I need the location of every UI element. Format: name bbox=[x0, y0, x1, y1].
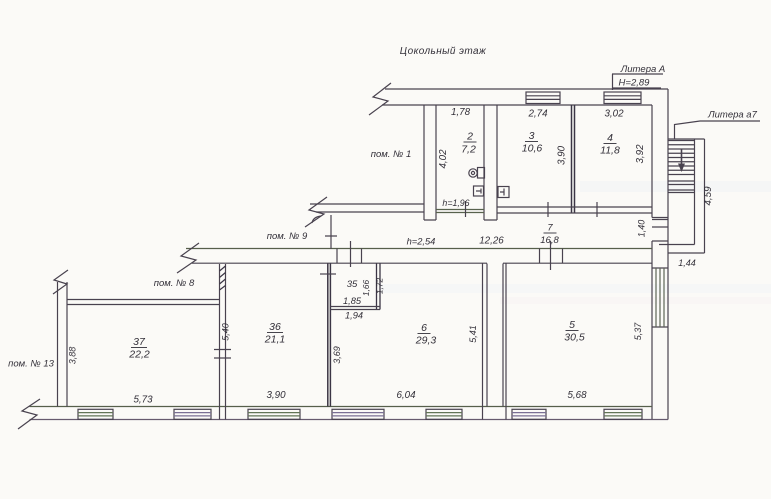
wall: rooms 3/4 bottom double bbox=[497, 207, 652, 213]
window bottom W7 bbox=[604, 409, 642, 419]
svg-text:3: 3 bbox=[529, 130, 535, 142]
wall: lower block bottom band top line bbox=[30, 406, 653, 408]
svg-text:h=1,96: h=1,96 bbox=[442, 198, 469, 208]
wall: пом1 bottom double bbox=[310, 204, 424, 212]
svg-text:16,8: 16,8 bbox=[540, 235, 559, 246]
sink room 2 bbox=[474, 186, 484, 196]
underline room 7 number bbox=[544, 232, 557, 234]
svg-text:1,66: 1,66 bbox=[361, 280, 371, 297]
break symbol top-left bbox=[369, 83, 391, 115]
svg-text:6: 6 bbox=[421, 322, 427, 334]
svg-text:3,90: 3,90 bbox=[557, 145, 568, 165]
stair door lines in right wall bbox=[652, 218, 668, 242]
svg-text:1,94: 1,94 bbox=[345, 311, 363, 321]
wall: room 37 top double bbox=[67, 300, 220, 305]
underline room 5 number bbox=[566, 330, 579, 332]
dimension line пом9 with tick and hook bbox=[312, 215, 337, 249]
window top wall room 4 bbox=[604, 92, 641, 104]
svg-text:3,90: 3,90 bbox=[266, 390, 286, 401]
svg-text:4,59: 4,59 bbox=[703, 186, 714, 206]
window top wall room 3 bbox=[526, 92, 560, 104]
wall: upper block top inner bbox=[382, 104, 652, 106]
door ticks wall 37/36 bbox=[214, 350, 231, 359]
Литера А underline bbox=[612, 73, 663, 75]
svg-text:5,37: 5,37 bbox=[633, 322, 643, 341]
svg-text:7: 7 bbox=[547, 223, 553, 234]
svg-text:пом. № 13: пом. № 13 bbox=[8, 359, 55, 370]
underline room 3 number bbox=[525, 141, 538, 143]
stair top line bbox=[668, 138, 705, 140]
svg-text:3,69: 3,69 bbox=[332, 346, 342, 364]
svg-text:3,92: 3,92 bbox=[635, 144, 646, 164]
door tick room 2 bottom bbox=[465, 201, 467, 217]
door tick room 3 bottom bbox=[547, 202, 549, 217]
svg-text:1,44: 1,44 bbox=[678, 258, 696, 268]
svg-text:30,5: 30,5 bbox=[564, 332, 585, 344]
stair landing lines bbox=[668, 181, 695, 193]
wall: corridor band bottom line bbox=[192, 262, 652, 264]
scan tint streak mid pink bbox=[500, 297, 771, 304]
wall: upper block top outer bbox=[385, 88, 668, 90]
wall divider rooms 36/6 bbox=[328, 264, 331, 407]
svg-text:Литера А: Литера А bbox=[620, 64, 666, 75]
wall divider rooms 3/4 bbox=[572, 105, 575, 213]
svg-text:1,85: 1,85 bbox=[343, 296, 362, 306]
svg-text:5,40: 5,40 bbox=[221, 323, 231, 341]
svg-text:29,3: 29,3 bbox=[415, 335, 437, 347]
svg-text:5,68: 5,68 bbox=[567, 390, 587, 401]
svg-text:22,2: 22,2 bbox=[128, 349, 150, 361]
window bottom W4 bbox=[332, 409, 384, 419]
wall: room 2 bottom double bbox=[436, 210, 484, 213]
wall: room 37 left double bbox=[58, 282, 68, 407]
stair arrow bbox=[681, 149, 683, 166]
svg-text:11,8: 11,8 bbox=[600, 145, 620, 157]
window bottom W5 bbox=[426, 409, 462, 419]
tick on divider 36/6 bbox=[320, 273, 336, 275]
sink room 3 bbox=[498, 187, 509, 198]
window right wall hatch bbox=[656, 268, 664, 327]
svg-text:Литера а7: Литера а7 bbox=[707, 110, 757, 121]
break symbol room 37 wall top bbox=[53, 270, 68, 294]
window bottom W3 bbox=[248, 409, 300, 419]
svg-text:3,02: 3,02 bbox=[604, 109, 624, 120]
underline room 36 number bbox=[267, 332, 283, 334]
wall: room 35 bottom double bbox=[330, 307, 380, 310]
svg-text:10,6: 10,6 bbox=[522, 143, 543, 155]
svg-text:21,1: 21,1 bbox=[264, 334, 285, 346]
door tick room 4 bottom bbox=[596, 202, 598, 217]
svg-text:Цокольный этаж: Цокольный этаж bbox=[400, 46, 487, 57]
stair rungs bbox=[668, 141, 695, 175]
window right wall caps bbox=[652, 268, 668, 327]
svg-text:5,73: 5,73 bbox=[133, 395, 153, 406]
svg-text:7,2: 7,2 bbox=[461, 144, 476, 156]
svg-text:2,74: 2,74 bbox=[527, 109, 548, 120]
wall: room 35 right double bbox=[377, 264, 381, 310]
window bottom W1 bbox=[78, 409, 113, 419]
svg-text:5,41: 5,41 bbox=[468, 325, 478, 343]
hatch pier on wall 37/36 bbox=[220, 266, 226, 290]
wall: building right inner x=652 bbox=[651, 105, 653, 420]
door jambs opening above room 36 bbox=[337, 241, 362, 267]
svg-text:3,88: 3,88 bbox=[68, 347, 78, 365]
underline room 4 number bbox=[604, 143, 617, 145]
svg-text:пом. № 9: пом. № 9 bbox=[267, 231, 308, 242]
svg-text:5: 5 bbox=[569, 319, 575, 331]
toilet room 2 bbox=[469, 168, 485, 179]
wall between rooms 6/5 bbox=[483, 264, 507, 420]
Литера а7 underline and leader bbox=[675, 121, 761, 139]
svg-text:12,26: 12,26 bbox=[479, 236, 504, 247]
underline room 37 number bbox=[131, 347, 147, 349]
wall column between room 2 and room 3 bbox=[484, 105, 497, 220]
svg-text:пом. № 8: пом. № 8 bbox=[154, 278, 195, 289]
svg-text:1,40: 1,40 bbox=[637, 220, 647, 238]
stair arrow head bbox=[678, 164, 685, 173]
svg-text:4,02: 4,02 bbox=[438, 149, 449, 169]
svg-text:пом. № 1: пом. № 1 bbox=[371, 149, 412, 160]
svg-text:4: 4 bbox=[607, 132, 613, 144]
svg-text:1,78: 1,78 bbox=[451, 107, 471, 118]
svg-text:h=2,54: h=2,54 bbox=[407, 237, 436, 247]
stair bottom lines bbox=[659, 245, 705, 254]
svg-text:37: 37 bbox=[133, 336, 146, 348]
svg-text:Н=2,89: Н=2,89 bbox=[619, 78, 651, 89]
wall between rooms 37/36 bbox=[220, 264, 226, 420]
window bottom W2 bbox=[174, 409, 211, 419]
wall: lower block bottom band outer line bbox=[30, 419, 669, 421]
stair right walls bbox=[695, 139, 705, 253]
svg-text:2: 2 bbox=[466, 131, 473, 143]
break symbol corridor band left bbox=[177, 243, 199, 273]
wall: corridor band top line bbox=[186, 248, 652, 250]
underline room 2 number bbox=[464, 141, 477, 143]
underline room 6 number bbox=[418, 333, 431, 335]
wall: building right outer x=668 bbox=[667, 89, 669, 420]
svg-text:6,04: 6,04 bbox=[396, 390, 416, 401]
break symbol corridor left upper bbox=[305, 197, 327, 227]
svg-text:35: 35 bbox=[347, 279, 358, 290]
scan tint streak upper right bbox=[580, 181, 771, 192]
door jambs opening above room 5 bbox=[540, 241, 563, 270]
scan tint streak mid bbox=[380, 284, 771, 293]
wall column between пом1 and room 2 bbox=[424, 105, 436, 220]
break symbol bottom-left bbox=[18, 399, 40, 429]
svg-text:36: 36 bbox=[269, 321, 281, 333]
svg-text:1,72: 1,72 bbox=[375, 278, 385, 295]
Н=2,89 underline and leader bbox=[612, 74, 661, 90]
window bottom W6 bbox=[512, 409, 546, 419]
